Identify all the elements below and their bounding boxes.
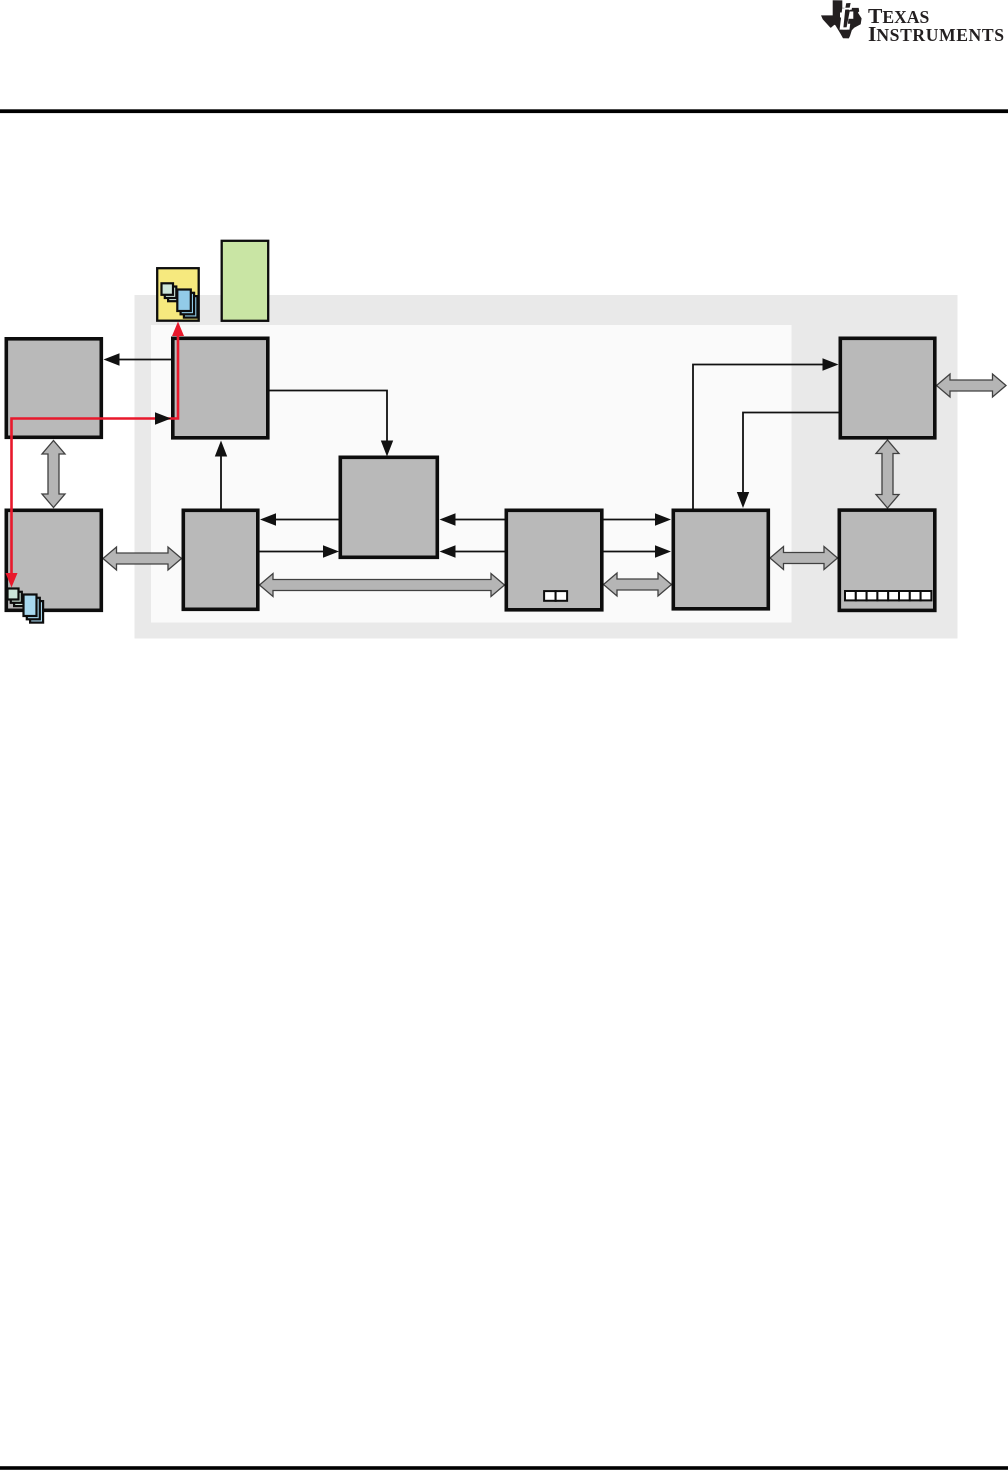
red trace arrowhead down to icon [6,573,18,588]
register cells row in box9 [845,591,931,600]
red trace polyline [12,325,179,584]
thick gray arrow box1-box4 [42,441,65,508]
svg-text:TEXAS INSTRUMENTS: TEXAS INSTRUMENTS [868,4,1005,46]
outer gray region [135,295,958,639]
wire box3 to box5 upper arrow [274,519,339,521]
thick gray arrow box7-box9 [770,547,838,570]
thick gray arrow box8-external right [937,374,1007,397]
footer rule [0,1466,1008,1470]
yellow-box copy icon (blue pages stack) [177,290,197,318]
wire box2 to box3 elbow arrow down [270,391,388,443]
wire box6 to box7 lower arrow [604,551,658,553]
block box3 middle [340,457,437,557]
red trace arrowhead up into yellow box [172,322,184,337]
bottom-left copy icon (blue pages stack) [24,595,44,623]
TI logo Texas-map symbol [821,0,862,38]
wire box5 to box3 lower arrow [260,551,326,553]
block box2 [173,338,268,438]
bottom-left copy icon (mint squares stack) [8,589,26,607]
register cells in box6 [544,591,567,601]
block box7 [673,510,768,609]
yellow-box copy icon (mint squares stack) [162,283,180,301]
wire box6 to box3 upper arrow [453,519,505,521]
block box6 [506,510,602,610]
thick gray arrow box5-box6 long [260,574,505,597]
wire box5 to box2 arrow up [220,454,222,509]
block box5 [183,510,257,609]
block box9 bottom-right [839,510,935,610]
inner light region [151,325,792,623]
thick gray arrow box6-box7 [604,573,672,596]
wire box8 to box7 elbow arrow down [743,413,839,495]
wire box6 to box3 lower arrow [453,551,505,553]
black arrowhead red trace into box2 [155,412,171,424]
green box [222,241,269,321]
yellow box [157,268,199,321]
wire box2 to box1 arrow [117,359,171,361]
header rule [0,109,1008,113]
block box4 bottom-left [6,510,101,610]
thick gray arrow box8-box9 vertical [876,440,899,508]
block box1 top-left [6,339,101,438]
block box8 top-right [840,338,935,438]
wire box7 to box8 elbow arrow right [693,365,824,509]
thick gray arrow box4-box5 [103,547,182,570]
wire box6 to box7 upper arrow [604,519,658,521]
